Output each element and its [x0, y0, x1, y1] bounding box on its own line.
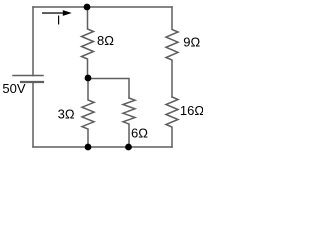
- resistor R2 9ohm with right wire: [166, 7, 178, 97]
- node dot bottom mid: [125, 144, 132, 151]
- node dot bottom left: [85, 144, 92, 151]
- battery V1 short plate: [21, 81, 43, 83]
- wire bottom: [33, 146, 172, 148]
- svg-text:3Ω: 3Ω: [58, 107, 75, 122]
- svg-text:50V: 50V: [2, 81, 25, 96]
- svg-text:6Ω: 6Ω: [131, 125, 148, 140]
- resistor R5 16ohm with right wire: [166, 97, 178, 147]
- resistor R4 6ohm: [123, 98, 135, 147]
- node dot middle: [85, 75, 92, 82]
- svg-text:8Ω: 8Ω: [97, 33, 114, 48]
- resistor R3 3ohm: [82, 78, 94, 147]
- wire top: [33, 6, 172, 8]
- wire left lower (battery - to bottom): [32, 82, 34, 147]
- svg-text:9Ω: 9Ω: [183, 34, 200, 49]
- wire left upper (to battery +): [32, 7, 34, 76]
- svg-text:I: I: [57, 13, 60, 27]
- battery V1 long plate: [13, 75, 43, 77]
- node dot top: [84, 4, 91, 11]
- svg-text:16Ω: 16Ω: [180, 103, 203, 118]
- wire middle node to 6ohm branch: [88, 79, 129, 99]
- resistor R1 8ohm: [82, 7, 94, 78]
- current arrow: [42, 10, 72, 16]
